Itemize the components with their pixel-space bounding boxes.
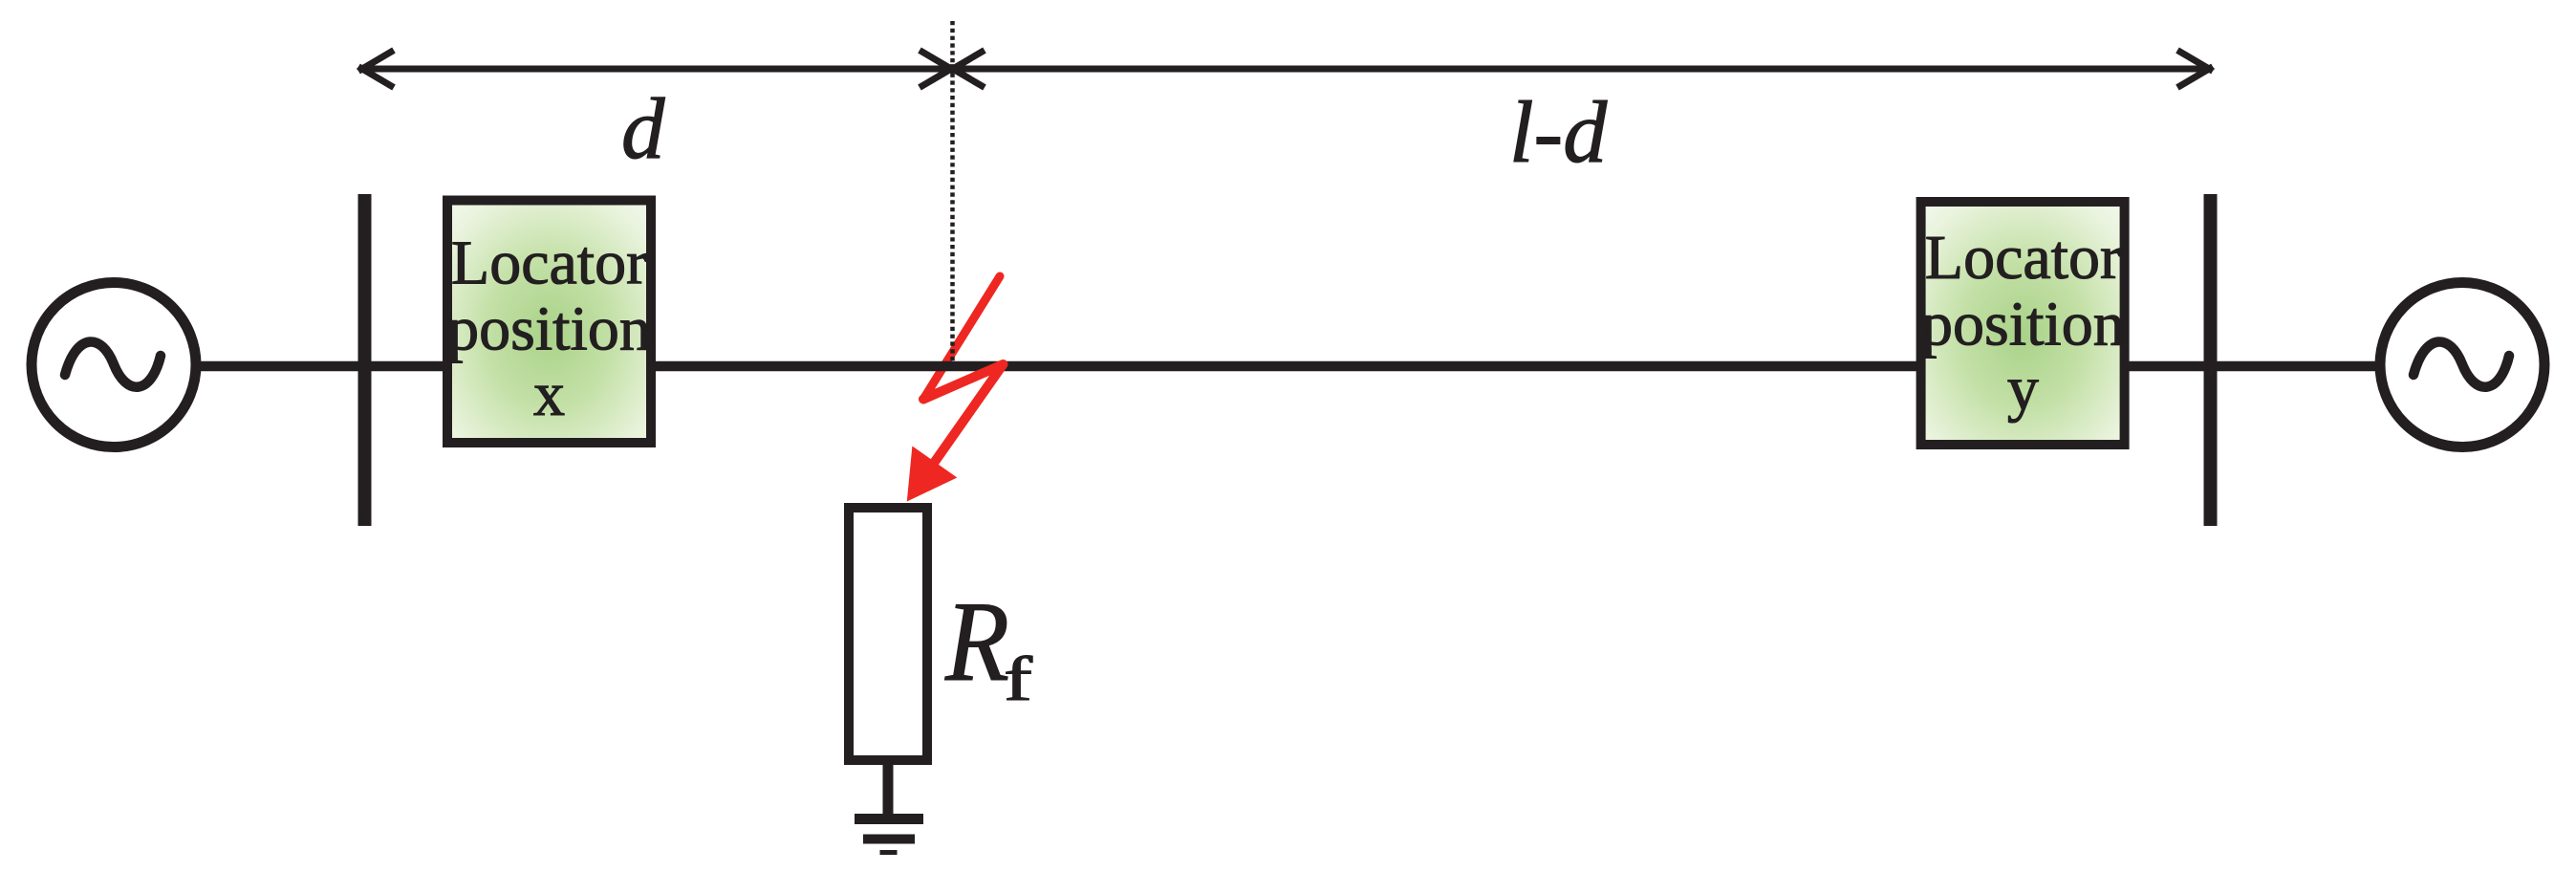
svg-text:f: f bbox=[1004, 644, 1032, 714]
svg-text:y: y bbox=[2007, 354, 2039, 424]
svg-text:l-d: l-d bbox=[1509, 83, 1608, 181]
svg-text:Locator: Locator bbox=[451, 229, 647, 298]
svg-text:d: d bbox=[621, 80, 665, 177]
svg-text:Locator: Locator bbox=[1925, 223, 2121, 293]
svg-text:R: R bbox=[944, 578, 1009, 705]
svg-text:position: position bbox=[1921, 290, 2125, 360]
svg-text:position: position bbox=[447, 294, 651, 364]
svg-text:x: x bbox=[533, 360, 565, 429]
